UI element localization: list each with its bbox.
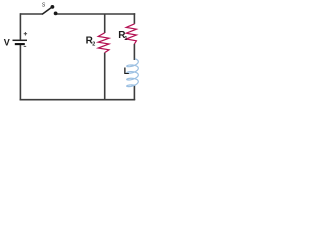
svg-text:2: 2 [92, 42, 95, 48]
svg-text:L: L [124, 66, 130, 76]
svg-text:V: V [4, 37, 10, 47]
svg-text:S: S [42, 3, 46, 9]
svg-text:1: 1 [124, 36, 127, 42]
